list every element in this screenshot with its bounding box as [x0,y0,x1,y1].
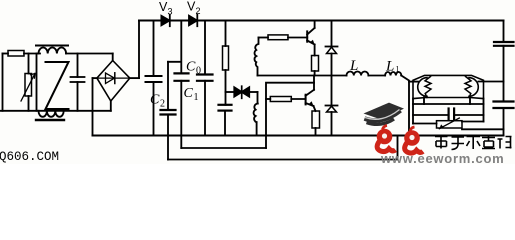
wire AC line bottom [0,110,111,112]
text Chinese watermark (drawn strokes) [435,135,512,150]
svg-text:L: L [349,58,358,74]
fuse FU [8,51,24,57]
wire AC line top input [3,53,9,55]
wire bridge right lead [130,77,139,79]
bridge rectifier [97,61,130,102]
capacitor right top (C3) [494,21,514,102]
svg-text:L: L [385,59,394,75]
lamp right dome [469,78,478,97]
svg-text:C: C [186,60,196,75]
wire L to L1 [368,75,385,77]
wire lamp right link vertical [483,99,485,122]
wire DC- bus1 [93,135,504,137]
choke T top winding [36,46,68,54]
svg-text:C: C [150,93,160,108]
wire lamp lower rail 2 [413,114,484,116]
svg-text:3: 3 [168,7,173,17]
diode V3 [161,15,169,26]
wire to PTC [413,123,437,125]
watermark red bug 1 [377,126,396,152]
resistor R2 (Q1 base) [259,35,308,40]
wire diac to winding W2 [257,92,259,104]
svg-text:Q606.COM: Q606.COM [0,150,59,164]
filament right [465,77,504,105]
choke T core Z link [37,54,69,111]
winding W2 (base drive Q2) [254,104,258,136]
wire lamp left cap vertical [412,99,414,124]
resistor R5 (Q2 emitter) [312,106,320,136]
wire midpoint [258,75,347,77]
label C1 [184,86,199,103]
wire PTC to right link [462,121,484,123]
svg-text:0: 0 [196,66,201,77]
wire left vertical to DC- bus [92,78,94,135]
capacitor trigger [219,105,232,136]
capacitor resonant [449,109,455,120]
wire Q2 collector branch [266,83,314,148]
watermark red bug 2 [404,127,423,153]
label L1 [385,59,400,75]
varistor RV [21,54,35,111]
label V3 [159,0,173,17]
svg-text:C: C [184,86,194,101]
PTC thermistor [437,118,463,129]
svg-text:2: 2 [196,6,201,16]
transistor Q2 [306,76,314,107]
capacitor X-cap [71,54,85,111]
label C2 [150,93,165,110]
wire bridge top lead [112,54,114,61]
resistor R3 (Q1 emitter) [312,45,319,76]
wire DC+ top rail [139,20,504,22]
wire V3-V2 junction drop with jog [168,21,181,74]
svg-text:www.eeworm.com: www.eeworm.com [380,151,504,164]
wire PTC bottom to right edge [462,128,504,130]
inductor L1 [385,72,401,75]
capacitor C0 [175,73,189,148]
capacitor right bottom (C4) [494,102,514,136]
diode D2 (bottom freewheel) [326,76,338,136]
wire bridge bottom lead [110,101,112,111]
choke T bottom winding [36,111,64,120]
capacitor C2 [146,21,162,136]
wire lamp lower rail 1 [413,103,484,105]
label V2 [187,0,201,16]
lamp tube outline [413,75,484,98]
watermark graduation cap [364,103,405,125]
wire DC+ riser [138,21,140,79]
diode V2 [189,15,197,26]
svg-text:2: 2 [160,99,165,110]
capacitor C1 [161,110,176,115]
resistor R1 [223,21,229,105]
resistor R4 (Q2 base) [266,97,306,102]
wire bridge left lead [93,77,97,79]
svg-text:1: 1 [194,92,199,103]
svg-text:1: 1 [396,65,400,74]
lamp left dome [418,78,427,97]
wire fuse to choke [24,53,40,55]
inductor L [347,72,369,76]
wire choke to bridge top [66,53,113,55]
diac [226,86,258,98]
wire L1 to lamp drop [401,76,409,136]
wire bus3 [168,136,398,160]
label C0 [186,60,201,77]
diode D1 (top freewheel) [326,21,338,76]
filament left [409,77,431,105]
capacitor C (after V2) [197,21,213,136]
transistor Q1 [307,21,314,45]
wire bus2 [181,147,266,149]
wire C1 top lead [167,62,169,110]
wire AC input left edge [2,54,4,111]
wire C1 to bus3 [167,115,169,160]
winding W1 (base drive Q1) [254,38,258,76]
